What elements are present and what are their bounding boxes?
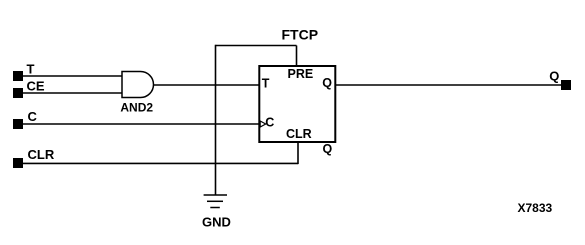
- svg-text:Q: Q: [323, 142, 333, 156]
- svg-text:GND: GND: [202, 214, 231, 229]
- clock triangle C: [260, 121, 266, 127]
- svg-text:FTCP: FTCP: [282, 27, 319, 43]
- input pin C: [13, 119, 23, 129]
- svg-text:T: T: [262, 77, 270, 91]
- svg-text:C: C: [265, 116, 274, 130]
- wire C to flip-flop clock: [23, 123, 259, 125]
- wire GND net top horizontal: [216, 45, 297, 47]
- ground symbol: [204, 195, 227, 208]
- wire AND2 output to flip-flop T: [154, 84, 260, 86]
- output pin Q square: [561, 80, 571, 90]
- wire T to AND2: [23, 75, 122, 77]
- and-gate AND2: [122, 72, 154, 98]
- wire PRE vertical drop: [296, 46, 298, 67]
- svg-text:CE: CE: [27, 79, 45, 94]
- wire Q output: [335, 84, 561, 86]
- input pin T: [13, 71, 23, 81]
- input pin CE: [13, 88, 23, 98]
- svg-text:Q: Q: [549, 68, 559, 83]
- wire CE to AND2: [23, 92, 122, 94]
- svg-text:PRE: PRE: [288, 67, 314, 81]
- svg-text:X7833: X7833: [518, 201, 553, 215]
- flip-flop U1 FTCP body: [259, 66, 335, 142]
- wire CLR vertical to flip-flop: [297, 141, 299, 164]
- svg-text:CLR: CLR: [28, 147, 55, 162]
- svg-text:C: C: [28, 109, 38, 124]
- wire CLR horizontal: [23, 162, 298, 164]
- wire GND vertical: [215, 45, 217, 195]
- svg-text:AND2: AND2: [120, 100, 153, 114]
- svg-text:CLR: CLR: [286, 127, 312, 141]
- svg-text:T: T: [27, 62, 35, 77]
- svg-text:Q: Q: [322, 76, 332, 90]
- input pin CLR: [13, 158, 23, 168]
